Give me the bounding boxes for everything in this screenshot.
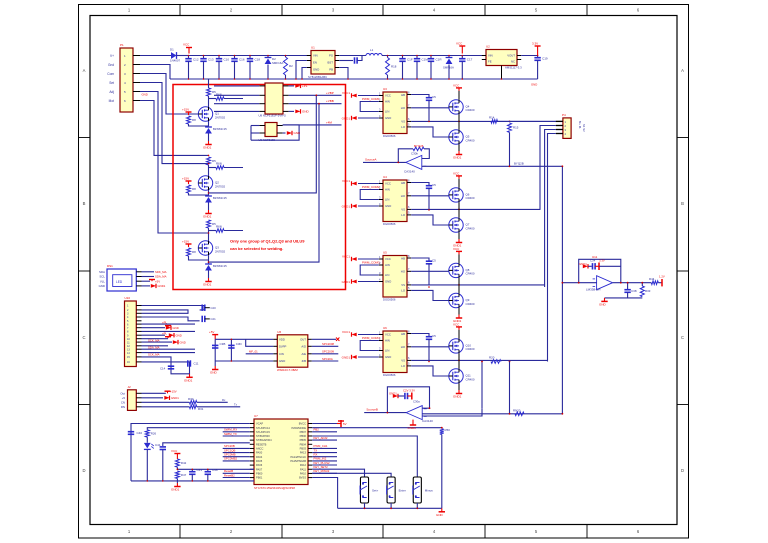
svg-text:R47: R47 [181,473,187,477]
svg-text:CR400: CR400 [466,108,475,112]
svg-text:GND1: GND1 [579,262,587,266]
svg-text:R8: R8 [192,187,196,191]
svg-text:D1: D1 [170,48,174,52]
U1 GND pin to bus [302,68,307,80]
cap C1M [416,56,418,59]
U6 HO wire to high gate [411,270,449,272]
svg-text:PB03: PB03 [300,447,307,451]
U2 ground pin to bus [501,66,503,80]
connector U10 [125,301,137,367]
sense resistors VS4 [491,360,501,364]
led D8 [144,443,151,450]
resistor R18 feedback [387,56,389,58]
cap C11 [188,360,191,366]
svg-text:VS: VS [401,283,405,287]
svg-text:GND: GND [173,326,179,330]
svg-text:1.2V: 1.2V [659,275,665,279]
svg-text:+15V: +15V [170,390,177,394]
mosfet Q9 low side [449,293,463,307]
svg-text:C34: C34 [590,259,596,263]
mcu left wire row3 cap [163,443,250,446]
svg-text:R50: R50 [445,428,451,432]
svg-text:U2: U2 [486,45,490,49]
svg-text:C: C [681,335,684,340]
connector P2 pins [556,120,567,136]
svg-text:A: A [83,68,86,73]
svg-text:VLL: VLL [100,279,106,283]
mcu right power 5V [312,423,337,425]
connector J2 [128,390,137,411]
power flag VCC on input rail [186,48,192,54]
svg-text:BZX84C15: BZX84C15 [213,196,227,200]
svg-text:PA00: PA00 [256,451,263,455]
svg-text:C2V 3.3V: C2V 3.3V [403,388,415,392]
power flag VCC Q6 [456,176,462,179]
svg-text:can be selected for welding.: can be selected for welding. [230,246,283,251]
svg-text:Set+: Set+ [372,489,379,493]
svg-text:LIN: LIN [385,273,389,277]
input rail D1 to U1 [189,55,312,57]
svg-text:SWIM_TX: SWIM_TX [224,432,237,436]
svg-text:AMS1117-3.3: AMS1117-3.3 [505,66,522,70]
U2 pin stubs [482,56,521,60]
svg-text:VCC: VCC [453,171,460,175]
svg-text:GND1: GND1 [342,117,351,121]
svg-text:PB00: PB00 [256,472,263,476]
gate resistor Q1 [209,98,217,100]
U3 HIN LIN loop [360,102,379,112]
U9 pin stubs [259,126,282,134]
svg-text:RN20: RN20 [513,408,521,412]
svg-text:C: C [82,335,85,340]
mosfet Q2 [198,176,212,190]
red highlight box [173,85,346,290]
U3 HB bootstrap cap [411,95,429,98]
svg-text:SourceB: SourceB [366,408,378,412]
U6 HIN LIN loop [360,265,379,275]
svg-text:BYQ2B: BYQ2B [514,161,524,165]
svg-text:J2: J2 [128,385,132,389]
gate driver U8b [383,331,407,373]
svg-text:GND1: GND1 [203,283,212,287]
svg-text:VCC1: VCC1 [342,330,350,334]
U6 GND port [358,281,379,283]
power flag VCC mid rail [459,46,465,54]
mcu left wire row1 to C vertical [131,424,250,481]
svg-text:GND1: GND1 [158,284,166,288]
op-amp U13 feedback loop [387,387,429,413]
svg-text:Z/B: Z/B [302,359,306,363]
svg-text:R6N: R6N [216,162,222,166]
svg-text:GND1: GND1 [203,146,212,150]
U9 top wire +4M [283,124,342,126]
wire P2 pin4 down to sense rail [548,134,556,362]
svg-text:PA10: PA10 [300,472,307,476]
mosfet Q10 high side [449,339,463,353]
VS4 node down to sense rail [509,362,511,414]
svg-text:C21: C21 [211,317,217,321]
power flag VCC Q4 [456,88,462,91]
svg-text:C1F: C1F [407,58,413,62]
mcu right row2 to key column [312,427,442,429]
svg-text:U6: U6 [277,330,281,334]
svg-text:CR400: CR400 [466,226,475,230]
svg-text:VS: VS [401,208,405,212]
cap C17 [461,56,463,59]
svg-text:SPC0MB2: SPC0MB2 [224,457,238,461]
op-amp U13 ground [412,420,414,422]
connector J2 wire 15V [142,392,166,394]
svg-text:VCC: VCC [183,43,190,47]
svg-text:GND1: GND1 [171,396,179,400]
svg-text:L1: L1 [370,48,374,52]
border zone labels [82,8,684,535]
svg-text:Com: Com [107,72,114,76]
svg-text:U3: U3 [383,87,387,91]
svg-text:GND1: GND1 [342,280,351,284]
ground below Q7 [458,232,460,239]
ground below Q11 [458,383,460,390]
mcu U7 pin names [256,422,307,480]
svg-text:CA3140: CA3140 [404,170,415,174]
cap C46 reset [207,469,209,471]
svg-text:VCC1: VCC1 [342,179,350,183]
svg-text:ST/BGAP004: ST/BGAP004 [256,438,272,442]
U6 pin stubs [379,254,411,291]
connector P1 [120,48,133,112]
svg-text:R8: R8 [192,250,196,254]
svg-text:C12: C12 [193,58,199,62]
U5 HIN LIN loop [360,190,379,200]
svg-text:LIN: LIN [385,110,389,114]
U10 net tags [165,326,171,328]
key switch Enter [387,477,395,503]
resistor R15 vertical [508,123,512,132]
svg-text:VIN: VIN [313,54,318,58]
svg-text:NC: NC [511,60,515,64]
U1 EN loop to bus [296,61,307,80]
svg-text:RN: RN [121,405,125,409]
svg-text:BYQ26: BYQ26 [414,144,424,148]
svg-text:PWM_COM1: PWM_COM1 [362,97,380,101]
svg-text:GND: GND [180,340,186,344]
svg-text:SY8120B1ABC: SY8120B1ABC [308,75,327,79]
svg-text:VOUT: VOUT [507,54,515,58]
gate driver U3 [383,92,407,134]
cap C18 [249,56,251,59]
svg-text:Set: Set [109,81,114,85]
svg-text:PWM_COM2: PWM_COM2 [362,185,380,189]
svg-text:C46: C46 [212,468,218,472]
rail under U11 [605,297,643,299]
svg-text:FE: FE [488,60,492,64]
gate driver U6 [383,256,407,298]
power flag 3.3V [535,46,541,56]
U8b LO wire to low gate [411,366,449,376]
zener diode below Q3 [208,255,210,264]
svg-text:1N4007: 1N4007 [170,59,181,63]
svg-text:GND1: GND1 [453,156,462,160]
svg-text:GND: GND [294,131,302,135]
wire U8 pin7 down to Q2 area [209,95,317,193]
svg-text:VCC: VCC [453,83,460,87]
U6 VS line [411,284,544,286]
svg-text:WS0103-T-3B/M: WS0103-T-3B/M [277,368,298,372]
U8 pin7 wire +VBP [289,94,342,96]
svg-text:B: B [83,201,86,206]
svg-text:U5: U5 [383,251,387,255]
svg-text:2N7002: 2N7002 [215,184,226,188]
gate resistor Q2 [209,167,217,169]
svg-text:R8: R8 [192,118,196,122]
svg-text:P4: P4 [562,113,566,117]
svg-text:GND1: GND1 [389,392,397,396]
svg-text:PWM_COM3: PWM_COM3 [362,261,380,265]
wire P2 pin3 down right column [545,130,556,288]
U6 VCC port [358,258,379,260]
power flag +15V Q2 [186,181,192,184]
svg-text:C5: C5 [432,183,436,187]
svg-text:VCC: VCC [385,94,391,98]
svg-text:C1M: C1M [422,58,429,62]
svg-text:VCC: VCC [171,449,178,453]
op-amp U13 [406,406,427,420]
svg-text:GND: GND [210,371,218,375]
svg-text:ResetB2: ResetB2 [224,473,235,477]
svg-text:GND1: GND1 [203,215,212,219]
U10 cap C21 [202,316,205,322]
svg-text:R6N: R6N [216,93,222,97]
svg-text:KEY_SET2: KEY_SET2 [314,465,329,469]
svg-text:HB: HB [401,256,405,260]
svg-text:CR400: CR400 [466,377,475,381]
svg-text:CA3140: CA3140 [422,419,433,423]
U6 decoupling rails [215,338,273,340]
svg-text:3.3V: 3.3V [599,259,605,263]
U5 LO wire to low gate [411,215,449,225]
svg-text:2N7002: 2N7002 [215,249,226,253]
svg-text:R6N: R6N [216,225,222,229]
mosfet Q8 high side [449,263,463,277]
svg-text:P1: P1 [120,43,124,47]
wire Q1 drain column [208,79,210,88]
svg-text:C5: C5 [432,259,436,263]
svg-text:D: D [82,468,85,473]
svg-text:R15: R15 [513,126,519,130]
ground keys rail [439,508,445,512]
U6 pin2 loop [246,339,274,346]
op-amp U12 output wire [363,161,406,163]
svg-text:R20: R20 [489,356,495,360]
U6 pin3 wire [246,353,274,355]
svg-text:CR400: CR400 [466,272,475,276]
zener diode below Q2 [208,190,210,196]
svg-text:Enter: Enter [399,489,406,493]
power flag +15V Q1 [186,112,192,115]
svg-text:C5: C5 [432,95,436,99]
svg-text:HIN: HIN [385,188,390,192]
svg-text:BZX84C15: BZX84C15 [213,264,227,268]
resistor above Q2 [207,157,211,165]
svg-text:MF_01: MF_01 [249,350,258,354]
svg-text:A: A [681,68,684,73]
svg-text:C19: C19 [542,57,548,61]
ground bus top [170,78,538,80]
svg-text:GND: GND [385,280,391,284]
sensor U6 [277,335,308,367]
cap C3D [228,345,234,348]
svg-text:BVSS: BVSS [299,476,306,480]
U5 pin stubs [379,178,411,215]
svg-text:PA06: PA06 [256,463,263,467]
U9 loop under [251,125,299,140]
svg-text:GND: GND [599,303,607,307]
svg-text:GND: GND [385,355,391,359]
LED module left labels [99,270,106,288]
svg-text:C13: C13 [208,58,214,62]
op-amp U12 CA3140 [406,155,427,169]
resistor above Q3 [207,220,211,228]
svg-text:+PL: +PL [302,84,308,88]
connector J2 wire R31 [142,406,190,408]
svg-text:VCC: VCC [453,322,460,326]
svg-text:PA14/PNCLK: PA14/PNCLK [290,455,306,459]
svg-text:SCK_MA: SCK_MA [148,353,160,357]
svg-text:CR400: CR400 [466,347,475,351]
keys ground rail [338,507,442,509]
ground Q1 [205,141,211,145]
svg-text:U6: U6 [383,326,387,330]
svg-text:VCC: VCC [385,333,391,337]
svg-text:+5: +5 [122,396,126,400]
svg-text:BST: BST [328,61,334,65]
svg-text:+PL: +PL [162,321,167,325]
svg-text:DGD0506: DGD0506 [383,134,396,138]
svg-text:SDK_MA: SDK_MA [155,270,167,274]
svg-text:ANCC: ANCC [256,447,263,451]
svg-text:GND: GND [313,68,319,72]
svg-text:C14: C14 [160,367,166,371]
svg-text:Gnd: Gnd [108,63,114,67]
svg-text:PA13: PA13 [300,451,307,455]
U10 pin stubs [127,305,142,364]
cap C40 on row1 vertical [128,432,134,435]
svg-text:PB04: PB04 [300,442,307,446]
sense divider node [509,121,511,123]
U8 left wires [214,86,259,112]
svg-text:VCC: VCC [385,257,391,261]
svg-text:SDA: SDA [99,270,105,274]
svg-text:+PL: +PL [162,331,167,335]
svg-text:STL/DPC14: STL/DPC14 [256,426,270,430]
svg-text:R33: R33 [645,289,651,293]
U3 GND port [358,117,379,119]
mosfet Q6 high side [449,188,463,202]
mcu wire to key3 [312,436,417,477]
U6 right wires [312,339,339,361]
svg-text:C20: C20 [211,306,217,310]
U11 bypass cluster [583,264,588,268]
svg-text:SPC2008: SPC2008 [322,342,334,346]
svg-text:LM358-DR: LM358-DR [586,288,601,292]
power flag +15V Q3 [186,244,192,247]
svg-text:VCC: VCC [385,182,391,186]
mcu U7 pin stubs [250,424,312,478]
U11 input wire [562,282,596,284]
svg-text:Mot: Mot [109,99,114,103]
svg-text:C3D: C3D [236,342,243,346]
LED module wires [142,272,155,286]
svg-text:DI/PP: DI/PP [279,345,286,349]
mcu wire to key1 [312,469,364,477]
U8 pin6 wire +VBB [289,103,342,105]
svg-text:PA05: PA05 [256,459,263,463]
svg-text:PB: PB [329,68,333,72]
svg-text:+15V: +15V [182,240,189,244]
gate resistor Q3 [209,230,217,232]
svg-text:Minus: Minus [425,489,434,493]
regulator U2 [486,50,517,66]
sheet border inner [90,16,677,525]
U8b GND port [358,356,379,358]
svg-text:+15V: +15V [182,177,189,181]
svg-text:PB07: PB07 [300,430,307,434]
U8b VS line [411,359,547,361]
svg-text:BZX84C15: BZX84C15 [213,127,227,131]
svg-text:5V: 5V [343,422,347,426]
ground Q3 [205,278,211,282]
svg-text:PA07: PA07 [256,467,263,471]
svg-text:PA15/PSDAB: PA15/PSDAB [290,459,306,463]
resistor R33 [640,286,644,297]
svg-text:A/D: A/D [301,345,306,349]
svg-text:+5V: +5V [209,330,214,334]
svg-text:HIN: HIN [385,100,390,104]
svg-text:SourceA: SourceA [365,158,377,162]
connector P2 output [563,118,571,138]
svg-text:CN: CN [121,401,125,405]
svg-text:C40: C40 [137,431,143,435]
svg-text:C43: C43 [197,468,203,472]
connector J2 wire GND [142,397,164,399]
svg-text:R18: R18 [391,64,397,68]
cap C19 output [537,56,539,58]
svg-text:+5V: +5V [155,279,160,283]
svg-text:R31: R31 [198,407,204,411]
svg-text:BVCC: BVCC [299,422,306,426]
mcu ground bus [131,480,254,482]
U6 right net tags [322,342,334,361]
svg-text:GND1: GND1 [453,395,462,399]
driver IC U9 [265,123,277,137]
svg-text:VCC: VCC [456,42,463,46]
ground Q2 [205,210,211,214]
svg-text:GND: GND [531,83,537,87]
U6 LO wire to low gate [411,290,449,300]
svg-text:C5: C5 [432,334,436,338]
power flag VCC reset network [174,454,180,460]
ground U11 [601,298,607,302]
svg-text:GND1: GND1 [408,426,417,430]
svg-text:GND1: GND1 [342,356,351,360]
resistor R14 on VS1 [491,120,498,124]
inductor L1 [366,54,382,56]
svg-text:HB: HB [401,181,405,185]
cap C13 [203,56,205,59]
U10 wires staircase [142,306,205,374]
svg-text:C11: C11 [194,362,199,366]
svg-text:R26: R26 [151,431,157,435]
